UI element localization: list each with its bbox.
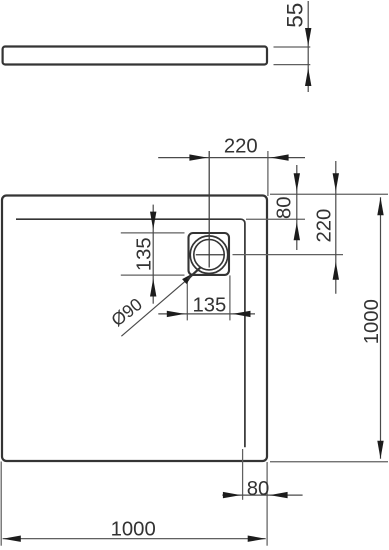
svg-text:135: 135 — [192, 294, 226, 316]
svg-text:135: 135 — [134, 237, 156, 271]
svg-text:Ø90: Ø90 — [107, 294, 146, 330]
svg-text:1000: 1000 — [111, 519, 156, 541]
svg-text:1000: 1000 — [361, 299, 383, 344]
svg-text:55: 55 — [283, 3, 308, 28]
svg-text:220: 220 — [314, 209, 336, 243]
svg-text:220: 220 — [224, 136, 258, 158]
svg-text:80: 80 — [273, 196, 295, 219]
svg-text:80: 80 — [247, 478, 270, 500]
